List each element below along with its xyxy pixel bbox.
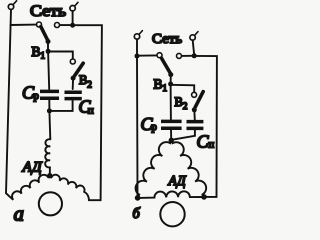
wire Cr bottom to junction (a) bbox=[48, 100, 50, 111]
wire terminal1 down (b) bbox=[136, 39, 138, 56]
rotor circle (b) bbox=[160, 202, 184, 226]
terminal X2b (mains right) bbox=[190, 32, 198, 41]
junction mains right (a) bbox=[70, 23, 75, 28]
wire B1 node down (a) bbox=[47, 42, 49, 52]
wire terminal to junction (a) bbox=[72, 11, 74, 25]
node junction (a) bbox=[46, 49, 51, 54]
vertex right (b) bbox=[201, 194, 207, 200]
wire junction to contact K3a bbox=[60, 24, 70, 26]
winding L3a (right chain) bbox=[51, 175, 100, 200]
contact K3a (spare contact) bbox=[55, 23, 60, 28]
svg-text:В1: В1 bbox=[32, 44, 46, 61]
winding left side (b) bbox=[136, 140, 172, 197]
svg-text:Сеть: Сеть bbox=[152, 32, 182, 47]
wire branch to B2 (b) bbox=[171, 85, 195, 92]
contact K1a of switch B1 bbox=[37, 22, 42, 27]
capacitor Cn (b) plates bbox=[187, 122, 204, 129]
wire junction to contact K3b bbox=[182, 55, 192, 57]
junction blade end (a) bbox=[46, 39, 51, 44]
node junction (b) bbox=[168, 82, 173, 87]
wire terminal2 to junction (b) bbox=[193, 40, 194, 53]
rotor circle (a) bbox=[39, 192, 62, 215]
svg-text:р: р bbox=[152, 122, 157, 133]
junction blade end (b) bbox=[168, 72, 173, 77]
switch blade B1b (closed) bbox=[161, 58, 170, 73]
star point junction (a) bbox=[47, 173, 52, 178]
wire left rail (b) bbox=[136, 56, 139, 196]
contact K2a of switch B2 bbox=[70, 59, 75, 64]
wire branch to B2 (a) bbox=[48, 52, 73, 59]
wire pivot to Cp cap (a) bbox=[72, 78, 74, 89]
svg-text:В1: В1 bbox=[154, 77, 168, 94]
switch blade B2a (open) bbox=[74, 63, 83, 76]
wire right rail (a) bbox=[73, 25, 102, 200]
junction left rail top (b) bbox=[135, 54, 140, 59]
wire Cp bottom to apex (b) bbox=[170, 130, 172, 139]
winding bottom side (b) bbox=[139, 191, 203, 198]
terminal X2a (mains right) bbox=[70, 2, 78, 11]
wire branch to switch contact (a) bbox=[11, 24, 37, 26]
wire blade end to node (b) bbox=[170, 75, 172, 84]
wire junction to contact K1b bbox=[137, 54, 157, 56]
switch blade B1a (closed) bbox=[41, 27, 48, 41]
apex junction (b) bbox=[169, 138, 174, 143]
svg-text:АД: АД bbox=[22, 158, 43, 175]
junction mains right (b) bbox=[192, 53, 197, 58]
vertex left (b) bbox=[135, 195, 141, 201]
switch blade B2b (open) bbox=[195, 92, 203, 108]
winding L1a (vertical coil) bbox=[45, 139, 50, 167]
pivot dot B2b bbox=[192, 107, 197, 112]
terminal X1a (mains left) bbox=[8, 1, 16, 10]
contact K2b of switch B2 (b) bbox=[192, 92, 197, 97]
capacitor Cp (b) plates bbox=[161, 121, 182, 128]
pivot dot B2a bbox=[71, 76, 76, 81]
svg-text:В2: В2 bbox=[79, 73, 92, 89]
wire down to winding (a) bbox=[48, 111, 51, 139]
winding right side (b) bbox=[171, 140, 206, 196]
wire pivot to Cn cap (b) bbox=[193, 110, 196, 120]
svg-text:В2: В2 bbox=[175, 95, 188, 111]
svg-text:п: п bbox=[88, 106, 94, 117]
svg-text:Сеть: Сеть bbox=[30, 3, 66, 20]
svg-text:р: р bbox=[34, 91, 39, 102]
contact K3b (spare contact) bbox=[177, 53, 182, 58]
svg-text:а: а bbox=[14, 202, 25, 226]
wire node to Cr cap (a) bbox=[48, 52, 49, 90]
terminal X1b (mains left) bbox=[134, 31, 142, 40]
contact K1b of switch B1 (b) bbox=[157, 53, 162, 58]
wire Cn bottom to junction (a) bbox=[50, 100, 73, 111]
svg-text:АД: АД bbox=[168, 173, 187, 188]
wire right rail (b) bbox=[194, 56, 217, 197]
svg-text:б: б bbox=[133, 206, 141, 222]
svg-text:п: п bbox=[209, 140, 215, 151]
wire node to Cp cap (b) bbox=[170, 84, 172, 120]
wire left rail (a) bbox=[6, 10, 13, 200]
winding L2a (left chain) bbox=[12, 175, 48, 199]
capacitor Cn (a) plates bbox=[65, 92, 82, 98]
capacitor Cr (a) plates bbox=[40, 91, 59, 98]
wire Cn bottom to apex (b) bbox=[172, 130, 195, 140]
wire coil to star point (a) bbox=[49, 167, 51, 174]
junction caps bottom (a) bbox=[47, 108, 52, 113]
